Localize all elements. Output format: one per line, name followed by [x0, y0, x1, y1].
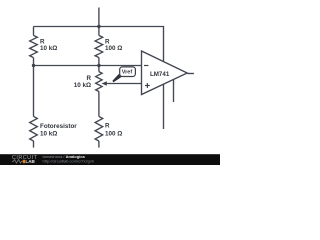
- svg-text:Vref: Vref: [122, 70, 133, 76]
- svg-text:http://circuitlab.com/c/7x2gvh: http://circuitlab.com/c/7x2gvh: [43, 159, 95, 164]
- svg-text:100 Ω: 100 Ω: [105, 45, 122, 52]
- svg-text:Fotoresistor: Fotoresistor: [40, 123, 77, 130]
- svg-text:LAB: LAB: [25, 159, 35, 164]
- svg-text:10 kΩ: 10 kΩ: [40, 130, 57, 137]
- svg-text:LM741: LM741: [150, 71, 170, 78]
- svg-text:100 Ω: 100 Ω: [105, 130, 122, 137]
- svg-text:R: R: [105, 123, 110, 130]
- svg-text:10 kΩ: 10 kΩ: [40, 45, 57, 52]
- svg-text:10 kΩ: 10 kΩ: [74, 82, 91, 89]
